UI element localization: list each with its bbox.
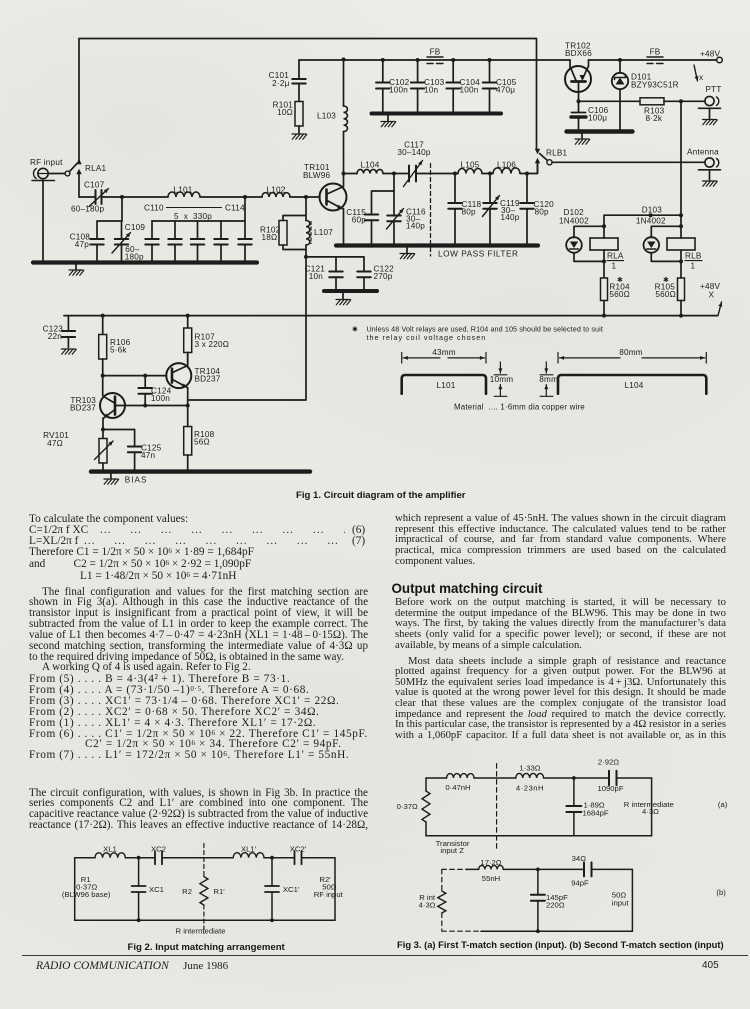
svg-text:43mm: 43mm bbox=[432, 348, 456, 357]
label R2 bbox=[182, 887, 192, 896]
caption Fig 2 bbox=[128, 942, 285, 953]
ground symbol (input bar) bbox=[69, 265, 84, 276]
resistor R105 bbox=[678, 261, 685, 315]
dimension 8mm arrows bbox=[540, 362, 553, 396]
ground bar (C106 D101) bbox=[567, 129, 633, 133]
resistor R104 bbox=[601, 261, 608, 315]
label TR101 bbox=[303, 163, 330, 180]
label XC2 bbox=[151, 845, 166, 854]
label 34ohm bbox=[572, 854, 587, 863]
svg-text:C114: C114 bbox=[225, 204, 245, 213]
label 0.47nH bbox=[445, 783, 470, 792]
label RLA bbox=[607, 252, 624, 271]
svg-text:80mm: 80mm bbox=[619, 348, 643, 357]
label R103 bbox=[644, 107, 665, 124]
right column paragraph 1 bbox=[395, 513, 726, 566]
label (a) bbox=[718, 800, 728, 809]
svg-text:L103: L103 bbox=[317, 112, 336, 121]
svg-text:47Ω: 47Ω bbox=[47, 439, 63, 448]
svg-text:270p: 270p bbox=[374, 272, 393, 281]
svg-text:XC2: XC2 bbox=[151, 845, 166, 854]
right column paragraph 3 bbox=[395, 656, 726, 741]
capacitor C103 bbox=[411, 58, 425, 114]
capacitor 1090pF series bbox=[609, 771, 617, 786]
svg-text:XC1: XC1 bbox=[149, 885, 164, 894]
wire R103 to PTT bbox=[664, 99, 705, 103]
capacitor C115 bbox=[365, 174, 394, 246]
label L101 (former) bbox=[436, 381, 455, 390]
node L107 bottom junction bbox=[304, 255, 308, 259]
caption Fig 1 bbox=[296, 490, 466, 501]
svg-text:18Ω: 18Ω bbox=[262, 233, 278, 242]
wire bypass loop top rail bbox=[79, 39, 537, 161]
svg-text:1: 1 bbox=[612, 262, 617, 271]
label material note bbox=[454, 403, 585, 412]
ground bar (bias) bbox=[91, 469, 310, 473]
svg-text:RF input: RF input bbox=[30, 158, 63, 167]
svg-text:R2: R2 bbox=[182, 887, 192, 896]
label C118 bbox=[462, 200, 482, 217]
inductor XL1' bbox=[233, 853, 264, 858]
node after C107 bbox=[120, 195, 124, 199]
dimension line 43mm bbox=[402, 353, 486, 364]
dimension 10mm arrows bbox=[494, 362, 507, 396]
label R105 bbox=[655, 276, 676, 299]
svg-text:0·37Ω: 0·37Ω bbox=[397, 802, 418, 811]
label R1' bbox=[213, 887, 225, 896]
label L106 bbox=[497, 161, 516, 170]
svg-text:X: X bbox=[709, 291, 715, 300]
wire TR102 base line to R103 bbox=[579, 100, 641, 102]
dashed section divider fig3a bbox=[496, 764, 498, 849]
left column equations bbox=[29, 513, 188, 525]
svg-text:XC2′: XC2′ bbox=[290, 845, 307, 854]
svg-text:55nH: 55nH bbox=[482, 874, 500, 883]
relay contact RLB1 bbox=[535, 149, 552, 173]
wire fig3a right end bbox=[651, 778, 653, 836]
label 1.33ohm bbox=[519, 764, 540, 773]
label 50ohm input bbox=[612, 891, 630, 908]
left column From() lines bbox=[29, 673, 290, 685]
svg-text:80p: 80p bbox=[535, 208, 550, 217]
svg-text:RLA1: RLA1 bbox=[85, 164, 107, 173]
label 43mm bbox=[432, 348, 456, 357]
svg-text:1: 1 bbox=[691, 262, 696, 271]
left column paragraph 1 bbox=[29, 587, 368, 674]
wire +48V X supply line bbox=[64, 314, 718, 318]
inductor L103 bbox=[344, 60, 348, 174]
label R107 bbox=[195, 333, 230, 350]
capacitor 1684pF shunt bbox=[566, 776, 581, 836]
svg-text:L104: L104 bbox=[360, 161, 379, 170]
svg-text:RF input: RF input bbox=[314, 890, 344, 899]
label 2.92ohm bbox=[598, 757, 619, 766]
connector PTT bbox=[699, 96, 721, 124]
svg-text:94pF: 94pF bbox=[571, 878, 589, 887]
node R106 TR103 base junction bbox=[101, 374, 167, 378]
svg-text:1684pF: 1684pF bbox=[583, 808, 609, 817]
svg-text:30–140p: 30–140p bbox=[397, 148, 431, 157]
capacitor C124 bbox=[138, 374, 152, 406]
svg-text:RLB: RLB bbox=[685, 252, 702, 261]
ferrite bead FB (supply rail) bbox=[427, 57, 443, 64]
svg-text:5·6k: 5·6k bbox=[110, 346, 127, 355]
label R104 bbox=[609, 276, 630, 299]
wire fig3b dashed left loop bbox=[442, 869, 481, 931]
svg-text:C107: C107 bbox=[84, 181, 105, 190]
label +48V bbox=[700, 50, 720, 59]
label C124 bbox=[151, 387, 172, 404]
svg-text:LOW PASS FILTER: LOW PASS FILTER bbox=[438, 249, 519, 259]
svg-text:180p: 180p bbox=[125, 253, 144, 262]
label L104 bbox=[360, 161, 379, 170]
label C101 bbox=[269, 71, 290, 88]
svg-text:220Ω: 220Ω bbox=[546, 901, 565, 910]
label D101 bbox=[631, 73, 679, 90]
label RV101 bbox=[43, 431, 69, 448]
ground symbol (C121 C122) bbox=[336, 293, 351, 305]
svg-text:47n: 47n bbox=[141, 451, 156, 460]
capacitor C104 bbox=[446, 58, 460, 114]
wire antenna line bbox=[552, 161, 705, 163]
relay coil RLA bbox=[590, 226, 618, 263]
label 17.2ohm bbox=[480, 858, 501, 867]
svg-text:XL1′: XL1′ bbox=[241, 845, 257, 854]
svg-text:470μ: 470μ bbox=[496, 86, 515, 95]
svg-text:60–180p: 60–180p bbox=[71, 205, 105, 214]
svg-text:L107: L107 bbox=[314, 228, 333, 237]
caption Fig 3 bbox=[397, 939, 724, 950]
transistor TR104 bbox=[166, 353, 191, 406]
resistor R int 4.3ohm bbox=[438, 891, 446, 913]
svg-text:1·33Ω: 1·33Ω bbox=[519, 764, 540, 773]
svg-text:2·92Ω: 2·92Ω bbox=[598, 757, 619, 766]
ground symbol (R101) bbox=[292, 134, 307, 139]
label R102 bbox=[260, 226, 281, 243]
label 0.37ohm bbox=[397, 802, 418, 811]
footer rule bbox=[22, 955, 748, 956]
label C105 bbox=[496, 78, 517, 95]
label D102 bbox=[559, 208, 589, 225]
connector Antenna bbox=[699, 158, 721, 186]
label Transistor input Z bbox=[436, 839, 470, 855]
capacitor C116 (variable) bbox=[387, 191, 404, 246]
svg-text:10mm: 10mm bbox=[490, 375, 514, 384]
label C108 bbox=[70, 233, 91, 250]
ferrite bead FB (+48V) bbox=[647, 57, 663, 64]
capacitor C107 (series variable) bbox=[79, 189, 122, 207]
inductor 0.47nH bbox=[447, 774, 474, 778]
label C115 bbox=[346, 208, 366, 225]
svg-text:80p: 80p bbox=[462, 208, 477, 217]
footer bbox=[36, 960, 228, 972]
label 1090pF bbox=[597, 784, 623, 793]
transistor TR101 bbox=[320, 174, 347, 246]
wire fig3b right end bbox=[631, 869, 633, 931]
node C119 top bbox=[488, 172, 492, 176]
wire fig3a top rail bbox=[426, 777, 652, 779]
transistor TR102 bbox=[565, 60, 591, 101]
label XC2' bbox=[290, 845, 307, 854]
RF input connector J1 bbox=[32, 168, 55, 262]
capacitor C110 (330p bank) bbox=[145, 221, 159, 263]
label Antenna bbox=[687, 148, 719, 157]
label RLB bbox=[685, 252, 703, 271]
label C120 bbox=[534, 200, 555, 217]
label C121 bbox=[305, 265, 326, 282]
node L103 top on supply rail bbox=[342, 58, 346, 62]
label XC1 bbox=[149, 885, 164, 894]
wire fig3b top rail bbox=[466, 868, 632, 870]
arrow to +48V X feed bbox=[694, 65, 699, 81]
wire fig3b bottom rail bbox=[481, 930, 632, 932]
capacitor bank C110-C114 bus bbox=[152, 197, 245, 221]
label C123 bbox=[43, 325, 64, 342]
capacitor 94pF series bbox=[584, 862, 592, 876]
label PTT bbox=[706, 85, 722, 94]
label TR102 bbox=[565, 42, 592, 59]
inductor L102 bbox=[262, 193, 290, 197]
label L107 bbox=[314, 228, 333, 237]
label L105 bbox=[460, 161, 479, 170]
capacitor 145pF/220ohm shunt bbox=[531, 868, 545, 934]
label L103 bbox=[317, 112, 336, 121]
terminal +48V bbox=[717, 57, 723, 63]
relay contact RLA1 bbox=[65, 159, 82, 197]
wire +48V feed bbox=[589, 59, 717, 61]
left column paragraph 2 bbox=[29, 788, 368, 831]
label RLA1 bbox=[85, 164, 107, 173]
coil former L104 outline bbox=[558, 375, 706, 394]
svg-text:1N4002: 1N4002 bbox=[636, 216, 666, 225]
inductor 4.23nH bbox=[516, 773, 544, 778]
wire supply rail bbox=[299, 59, 570, 61]
label C107 bbox=[71, 181, 105, 214]
svg-text:RLB1: RLB1 bbox=[546, 149, 568, 158]
svg-text:100n: 100n bbox=[151, 394, 170, 403]
ground symbol (LPF bar) bbox=[400, 248, 415, 259]
capacitor C117 (series variable) bbox=[394, 161, 455, 187]
label +48V X bbox=[700, 282, 720, 300]
label R intermediate 4.3ohm bbox=[624, 800, 674, 816]
svg-text:22n: 22n bbox=[48, 332, 63, 341]
svg-text:17·2Ω: 17·2Ω bbox=[480, 858, 501, 867]
label C119 bbox=[500, 199, 520, 222]
label C104 bbox=[460, 78, 481, 95]
capacitor C111 (330p bank) bbox=[168, 221, 182, 263]
capacitor C101 bbox=[292, 60, 306, 102]
svg-text:RLA: RLA bbox=[607, 252, 624, 261]
svg-text:10n: 10n bbox=[424, 86, 439, 95]
ground symbol (bias bar) bbox=[104, 474, 119, 484]
svg-text:4·3Ω: 4·3Ω bbox=[419, 901, 436, 910]
wire node to L102 bbox=[245, 196, 262, 198]
label 4.23nH bbox=[516, 784, 544, 793]
label BIAS bbox=[125, 476, 148, 485]
svg-text:XL1: XL1 bbox=[103, 845, 117, 854]
wire PTT junction down to relay coils bbox=[680, 101, 682, 215]
capacitor C108 bbox=[90, 197, 122, 263]
label FB (rail) bbox=[430, 48, 441, 57]
right column paragraph 2 bbox=[395, 597, 726, 650]
svg-text:5 x 330p: 5 x 330p bbox=[174, 212, 212, 221]
label 94pF bbox=[571, 878, 589, 887]
label L101 bbox=[173, 186, 192, 195]
svg-text:D103: D103 bbox=[642, 206, 663, 215]
label R108 bbox=[194, 430, 215, 447]
capacitor C120 bbox=[520, 174, 534, 246]
node C116 top bbox=[392, 172, 396, 176]
label C109 bbox=[125, 223, 146, 262]
resistor R107 bbox=[184, 314, 192, 363]
capacitor XC1' bbox=[265, 856, 279, 922]
capacitor C118 bbox=[448, 174, 462, 246]
svg-text:FB: FB bbox=[430, 48, 441, 57]
svg-text:C110: C110 bbox=[144, 204, 164, 213]
svg-text:BD237: BD237 bbox=[70, 404, 96, 413]
wire fig2 right end (R2') bbox=[334, 858, 336, 921]
wire fig2 bottom rail bbox=[75, 919, 335, 921]
svg-text:BIAS: BIAS bbox=[125, 476, 148, 485]
label XL1 bbox=[103, 845, 117, 854]
wire fig3a bottom rail bbox=[426, 835, 652, 837]
svg-text:input: input bbox=[612, 898, 630, 907]
svg-text:L102: L102 bbox=[266, 186, 285, 195]
label C125 bbox=[141, 444, 162, 461]
svg-text:(BLW96 base): (BLW96 base) bbox=[62, 890, 111, 899]
capacitor C112 (330p bank) bbox=[191, 221, 205, 263]
resistor R103 bbox=[640, 98, 664, 105]
label C117 bbox=[397, 141, 431, 158]
label D103 bbox=[636, 206, 666, 226]
svg-text:R intermediate: R intermediate bbox=[176, 927, 226, 936]
diode D101 zener bbox=[612, 58, 628, 132]
label FB (+48V) bbox=[650, 48, 661, 57]
svg-text:2·2μ: 2·2μ bbox=[272, 79, 289, 88]
label R1 0.37ohm BLW96 base bbox=[62, 875, 111, 899]
svg-text:the relay coil voltage chosen: the relay coil voltage chosen bbox=[367, 333, 487, 342]
wire C107 node to L101 bbox=[122, 196, 168, 198]
capacitor C121 bbox=[306, 257, 343, 291]
svg-text:BZY93C51R: BZY93C51R bbox=[631, 81, 679, 90]
capacitor C106 (electrolytic) bbox=[571, 101, 586, 129]
svg-text:140p: 140p bbox=[406, 222, 425, 231]
svg-text:10Ω: 10Ω bbox=[277, 108, 293, 117]
svg-text:Material .... 1·6mm dia coppe: Material .... 1·6mm dia copper wire bbox=[454, 403, 585, 412]
svg-text:3 x 220Ω: 3 x 220Ω bbox=[195, 340, 230, 349]
label x (feed) bbox=[699, 73, 703, 82]
wire relay coil top bus bbox=[604, 213, 683, 226]
label 55nH bbox=[482, 874, 500, 883]
wire bias feed L107 to TR104 emitter bbox=[188, 257, 306, 400]
node C120 top bbox=[525, 172, 529, 176]
svg-text:R1′: R1′ bbox=[213, 887, 225, 896]
inductor 55nH bbox=[479, 865, 504, 869]
heading Output matching circuit bbox=[392, 581, 543, 596]
node TR103 emitter bbox=[101, 428, 105, 432]
note unless 48 volt relays bbox=[352, 325, 603, 343]
preset RV101 bbox=[95, 430, 114, 472]
capacitor C123 bbox=[61, 316, 76, 355]
svg-text:4·3Ω: 4·3Ω bbox=[642, 807, 659, 816]
wire fig2 left end (R1) bbox=[74, 858, 76, 921]
svg-text:100n: 100n bbox=[460, 86, 479, 95]
ground bar (C121 C122) bbox=[324, 289, 377, 293]
svg-text:Antenna: Antenna bbox=[687, 148, 719, 157]
svg-text:1090pF: 1090pF bbox=[597, 784, 623, 793]
label 80mm bbox=[619, 348, 643, 357]
inductor XL1 bbox=[95, 853, 125, 858]
inductor L104 bbox=[344, 169, 395, 173]
label 8mm bbox=[539, 375, 558, 384]
ground bar (C102-C105) bbox=[372, 112, 502, 116]
label XL1' bbox=[241, 845, 257, 854]
svg-text:L101: L101 bbox=[173, 186, 192, 195]
node C118 top bbox=[453, 172, 457, 176]
capacitor C105 bbox=[483, 58, 497, 114]
svg-text:L105: L105 bbox=[460, 161, 479, 170]
capacitor XC2' bbox=[295, 851, 302, 864]
svg-text:✱: ✱ bbox=[352, 325, 358, 334]
node RF input to RLA1 wire bbox=[48, 173, 65, 175]
svg-text:100n: 100n bbox=[389, 86, 408, 95]
capacitor C113 (330p bank) bbox=[214, 221, 228, 263]
label R101 bbox=[273, 101, 294, 118]
ground bar (input section) bbox=[33, 260, 257, 264]
label RLB1 bbox=[546, 149, 568, 158]
label TR104 bbox=[195, 367, 221, 384]
label C122 bbox=[374, 265, 395, 282]
label C103 bbox=[424, 78, 445, 95]
svg-text:8·2k: 8·2k bbox=[646, 114, 663, 123]
resistor R108 bbox=[184, 406, 192, 472]
svg-text:FB: FB bbox=[650, 48, 661, 57]
svg-text:input Z: input Z bbox=[440, 846, 464, 855]
label (b) bbox=[716, 888, 726, 897]
inductor L105 bbox=[455, 169, 490, 174]
resistor R101 bbox=[295, 102, 303, 134]
svg-text:BLW96: BLW96 bbox=[303, 171, 330, 180]
svg-text:560Ω: 560Ω bbox=[609, 290, 630, 299]
svg-text:PTT: PTT bbox=[706, 85, 722, 94]
svg-text:56Ω: 56Ω bbox=[194, 438, 210, 447]
ground symbol (C106 bar) bbox=[575, 134, 590, 145]
transistor TR103 bbox=[100, 376, 125, 430]
divider dashed line (R intermediate) bbox=[203, 844, 205, 934]
svg-text:BD237: BD237 bbox=[195, 375, 221, 384]
resistor R102 bbox=[279, 197, 306, 250]
label LOW PASS FILTER bbox=[438, 249, 519, 259]
svg-text:100μ: 100μ bbox=[588, 114, 607, 123]
wire L101 to node bbox=[200, 195, 247, 199]
node TR102 collector / C106 bbox=[577, 99, 581, 103]
wire TR103 collector to TR104 emitter bbox=[115, 404, 190, 408]
ground bar (emitter / LPF) bbox=[336, 243, 538, 247]
node TR101 collector bbox=[342, 172, 346, 176]
label C102 bbox=[389, 78, 410, 95]
svg-text:4·23nH: 4·23nH bbox=[516, 784, 544, 793]
capacitor C119 (variable) bbox=[483, 174, 500, 246]
dimension line 80mm bbox=[558, 353, 706, 364]
svg-text:(b): (b) bbox=[716, 888, 726, 897]
inductor L101 bbox=[168, 192, 200, 197]
resistor 0.37ohm (transistor input) bbox=[422, 778, 430, 836]
svg-text:60p: 60p bbox=[352, 216, 367, 225]
resistor R106 bbox=[99, 314, 107, 376]
capacitor C109 (variable) bbox=[112, 221, 131, 263]
label R2' 50ohm RF input bbox=[314, 875, 344, 899]
svg-text:XC1′: XC1′ bbox=[283, 885, 300, 894]
